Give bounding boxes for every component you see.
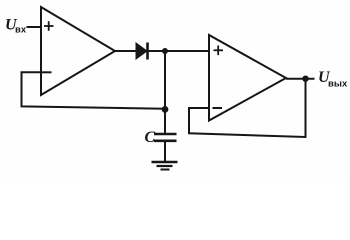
wire op-amp2 feedback loop: minus input to output node xyxy=(189,79,306,137)
op-amp U1 xyxy=(41,7,115,95)
wire op-amp1 output to diode xyxy=(115,50,137,52)
node B junction dot (capacitor node / feedback rail) xyxy=(162,106,169,113)
op-amp U2 xyxy=(209,35,286,121)
wire input to op-amp1 plus xyxy=(27,26,42,28)
wire capacitor to ground xyxy=(164,141,166,162)
capacitor C plates xyxy=(154,134,177,141)
wire op-amp2 output xyxy=(286,78,315,80)
svg-text:вых: вых xyxy=(328,79,348,90)
node A junction dot (after diode) xyxy=(162,48,168,54)
ground xyxy=(152,162,178,170)
op-amp U2 plus input marker xyxy=(214,46,224,56)
diode VD1 xyxy=(136,43,148,60)
op-amp U1 minus input marker xyxy=(42,71,52,73)
wire diode to op-amp2 plus input xyxy=(147,50,209,52)
node Uvyx junction dot (output) xyxy=(302,76,308,82)
op-amp U1 plus input marker xyxy=(44,21,54,31)
node Uvyx label xyxy=(318,69,348,90)
wire node A down to capacitor xyxy=(164,51,166,134)
svg-text:C: C xyxy=(145,129,156,146)
op-amp U2 minus input marker xyxy=(213,107,223,109)
wire op-amp1 feedback: minus input to node B xyxy=(22,72,166,109)
node Uvx label xyxy=(5,17,27,36)
svg-text:вх: вх xyxy=(15,25,27,36)
